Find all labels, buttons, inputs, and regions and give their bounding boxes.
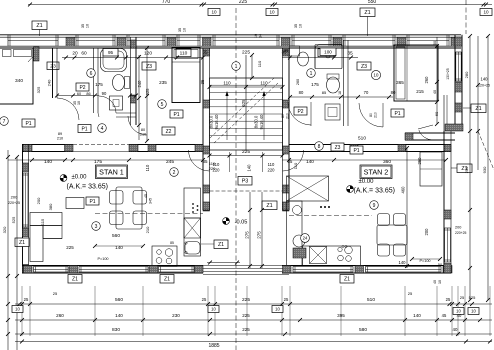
svg-text:24: 24 [303,236,308,241]
svg-text:770: 770 [162,0,171,5]
svg-text:20: 20 [72,51,78,57]
svg-text:225: 225 [242,313,250,318]
svg-text:60: 60 [433,41,437,45]
svg-text:140: 140 [115,313,123,318]
svg-text:580: 580 [359,327,367,333]
svg-text:90: 90 [102,91,107,96]
svg-text:460: 460 [401,186,406,194]
svg-text:210: 210 [57,137,63,141]
svg-text:Z1: Z1 [19,240,25,246]
svg-text:260: 260 [56,313,64,318]
svg-text:-0.05: -0.05 [235,220,248,226]
svg-text:110: 110 [223,81,231,86]
svg-text:25: 25 [284,297,289,302]
svg-text:220+25: 220+25 [455,231,467,235]
svg-text:85: 85 [322,90,327,95]
svg-text:250: 250 [417,157,422,165]
svg-text:(A.K.= 33.65): (A.K.= 33.65) [67,184,108,191]
svg-text:210: 210 [145,226,150,233]
svg-text:P1: P1 [81,126,87,132]
svg-text:110: 110 [293,162,298,169]
svg-text:140: 140 [481,77,489,82]
svg-text:10: 10 [438,280,442,284]
svg-text:9x16.40: 9x16.40 [214,114,219,130]
svg-text:10: 10 [483,10,489,15]
svg-text:80: 80 [281,114,285,118]
svg-text:250: 250 [464,166,469,173]
svg-text:10: 10 [275,307,280,312]
svg-text:100: 100 [324,49,332,54]
svg-text:140: 140 [399,260,407,265]
svg-text:260: 260 [424,76,429,84]
svg-text:510: 510 [367,297,375,303]
svg-text:25: 25 [460,295,465,300]
svg-text:25: 25 [53,291,58,296]
svg-text:10: 10 [211,10,217,15]
svg-text:225: 225 [242,149,250,155]
svg-text:110: 110 [260,81,268,86]
svg-text:10: 10 [374,73,379,78]
svg-text:5: 5 [161,102,164,108]
svg-text:210: 210 [140,133,146,137]
svg-text:380: 380 [48,203,53,210]
svg-text:80: 80 [369,113,373,117]
svg-text:Z2: Z2 [166,129,172,135]
svg-text:10: 10 [254,34,258,38]
svg-text:320: 320 [2,226,7,233]
svg-text:225: 225 [66,245,74,250]
svg-text:930: 930 [482,166,487,173]
svg-text:240: 240 [47,79,52,86]
svg-text:±0.00: ±0.00 [72,175,88,181]
svg-text:140: 140 [306,159,314,164]
svg-text:80: 80 [299,90,304,95]
svg-text:560: 560 [112,233,120,239]
svg-text:9x16.40: 9x16.40 [259,114,264,130]
svg-text:830: 830 [112,327,120,333]
svg-text:P1: P1 [394,111,400,117]
svg-text:45: 45 [144,194,148,198]
svg-text:200: 200 [455,226,461,230]
svg-text:275: 275 [257,231,262,239]
svg-text:10: 10 [211,307,216,312]
svg-text:80: 80 [141,128,145,132]
svg-text:Z1: Z1 [164,277,170,283]
svg-text:365: 365 [396,80,404,85]
svg-text:P1: P1 [353,148,359,154]
svg-text:225: 225 [239,0,248,5]
svg-text:35: 35 [200,79,205,84]
svg-text:Z1: Z1 [36,23,42,29]
svg-text:1: 1 [235,64,238,70]
svg-text:35: 35 [294,24,298,28]
svg-text:395: 395 [337,313,345,318]
svg-text:18: 18 [338,91,342,95]
svg-text:110: 110 [145,164,150,171]
svg-text:10: 10 [269,10,275,15]
svg-text:215: 215 [416,89,424,94]
svg-text:45: 45 [442,313,447,318]
svg-text:525: 525 [241,99,246,107]
svg-text:225: 225 [242,50,250,56]
svg-text:25: 25 [446,297,451,302]
svg-text:P1: P1 [89,199,95,205]
svg-text:550: 550 [368,0,377,5]
svg-text:(A.K.= 33.65): (A.K.= 33.65) [354,188,395,195]
svg-text:95: 95 [108,50,114,55]
svg-text:345: 345 [149,198,153,204]
svg-text:225: 225 [242,297,250,303]
svg-text:140: 140 [115,245,123,250]
svg-text:110: 110 [180,50,188,56]
svg-text:Z1: Z1 [364,10,370,16]
svg-text:Z1: Z1 [218,242,224,248]
svg-text:230: 230 [172,313,180,318]
svg-text:2: 2 [173,170,176,176]
svg-text:P=100: P=100 [419,259,430,263]
svg-text:110: 110 [268,162,275,167]
svg-text:1: 1 [310,71,313,77]
svg-text:220: 220 [268,168,276,173]
svg-text:8x30.0: 8x30.0 [209,115,214,128]
svg-text:140: 140 [413,313,421,318]
svg-text:34: 34 [259,34,263,38]
svg-text:120: 120 [144,51,152,57]
svg-text:200: 200 [424,228,429,236]
svg-text:35: 35 [178,28,182,32]
svg-text:STAN 2: STAN 2 [364,167,389,176]
svg-text:60: 60 [434,111,439,116]
svg-text:P2: P2 [79,85,85,91]
svg-text:220: 220 [209,166,216,171]
svg-text:±0.00: ±0.00 [359,179,375,185]
svg-text:240: 240 [137,80,142,88]
svg-text:60: 60 [81,51,87,57]
svg-text:340: 340 [15,78,23,84]
svg-text:P2: P2 [297,109,303,115]
svg-text:40: 40 [433,280,437,284]
svg-text:35: 35 [202,50,208,55]
svg-text:10: 10 [183,28,187,32]
svg-text:Z1: Z1 [475,106,481,112]
svg-text:140: 140 [247,164,252,172]
svg-text:10: 10 [77,101,81,105]
svg-text:4: 4 [101,126,104,132]
svg-text:10: 10 [471,309,476,314]
svg-text:260: 260 [296,79,300,85]
svg-text:40: 40 [433,90,437,94]
svg-text:275: 275 [245,231,250,239]
svg-text:10: 10 [299,24,303,28]
svg-text:560: 560 [115,297,123,303]
svg-text:7: 7 [3,119,6,125]
svg-text:8: 8 [318,144,321,150]
svg-text:25: 25 [202,297,207,302]
svg-text:200: 200 [36,197,41,204]
svg-text:3: 3 [95,224,98,230]
svg-text:35: 35 [81,24,85,28]
svg-text:70: 70 [364,90,369,95]
svg-text:210: 210 [286,113,290,119]
svg-text:Z3: Z3 [50,63,56,69]
svg-text:Z1: Z1 [72,277,78,283]
svg-text:Z3: Z3 [335,145,341,151]
svg-text:325: 325 [145,88,150,96]
svg-text:280: 280 [464,71,469,78]
svg-text:1885: 1885 [208,343,219,349]
svg-text:115: 115 [40,218,45,225]
svg-text:210: 210 [374,112,378,118]
svg-text:Z1: Z1 [266,203,272,209]
svg-text:175: 175 [95,82,103,87]
svg-text:89: 89 [58,132,62,136]
svg-text:P1: P1 [173,112,179,118]
svg-text:85: 85 [170,241,174,245]
svg-text:510: 510 [358,136,366,142]
svg-text:40: 40 [457,313,462,318]
svg-text:525: 525 [469,295,476,300]
svg-text:220+25: 220+25 [8,201,20,205]
svg-text:10: 10 [86,24,90,28]
svg-text:25: 25 [24,297,29,302]
svg-text:225: 225 [242,327,250,332]
svg-text:STAN 1: STAN 1 [99,167,124,176]
svg-text:6: 6 [90,71,93,77]
svg-text:8x30.0: 8x30.0 [254,115,259,128]
svg-text:110: 110 [257,60,262,67]
svg-text:175: 175 [311,82,319,87]
svg-text:40: 40 [453,327,458,332]
svg-text:35: 35 [284,48,289,53]
svg-text:10: 10 [15,307,20,312]
svg-text:9: 9 [373,203,376,209]
svg-text:25: 25 [408,291,413,296]
svg-text:80: 80 [391,90,396,95]
svg-text:P3: P3 [242,179,249,185]
svg-text:P=100: P=100 [97,257,108,261]
svg-text:Z3: Z3 [361,64,367,70]
svg-text:235: 235 [159,80,167,85]
svg-text:525: 525 [11,216,16,223]
svg-text:Z1: Z1 [344,277,350,283]
svg-text:P1: P1 [25,121,31,127]
svg-text:325: 325 [36,86,41,93]
svg-text:130+25: 130+25 [446,68,450,80]
